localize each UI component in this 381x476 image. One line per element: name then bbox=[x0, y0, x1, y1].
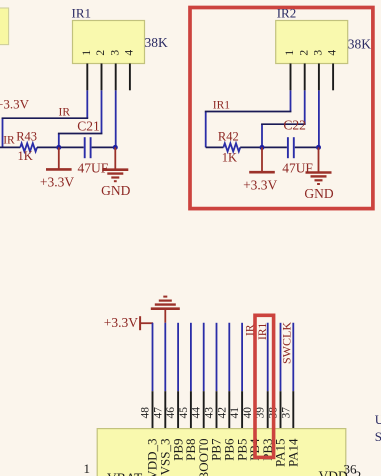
svg-text:C21: C21 bbox=[77, 119, 100, 134]
svg-text:IR1: IR1 bbox=[213, 100, 231, 112]
svg-text:1: 1 bbox=[84, 461, 91, 476]
svg-text:IR: IR bbox=[3, 135, 15, 147]
svg-text:1: 1 bbox=[284, 50, 296, 56]
svg-text:C22: C22 bbox=[283, 118, 306, 133]
svg-text:2: 2 bbox=[95, 50, 107, 56]
svg-text:+3.3V: +3.3V bbox=[243, 177, 277, 192]
svg-text:47UF: 47UF bbox=[282, 161, 313, 176]
svg-text:3: 3 bbox=[313, 50, 325, 56]
svg-text:1: 1 bbox=[81, 50, 93, 56]
svg-text:1K: 1K bbox=[18, 149, 33, 163]
svg-text:+3.3V: +3.3V bbox=[104, 315, 138, 330]
svg-text:PA14: PA14 bbox=[286, 438, 301, 467]
svg-text:R42: R42 bbox=[218, 129, 239, 143]
svg-text:IR1: IR1 bbox=[257, 323, 269, 341]
svg-text:SWCLK: SWCLK bbox=[280, 322, 294, 364]
svg-text:IR: IR bbox=[59, 106, 71, 118]
svg-text:37: 37 bbox=[280, 407, 292, 419]
svg-text:IR1: IR1 bbox=[72, 5, 92, 20]
svg-text:R43: R43 bbox=[16, 129, 37, 143]
svg-text:1K: 1K bbox=[222, 151, 237, 165]
svg-text:IR2: IR2 bbox=[277, 5, 297, 20]
svg-text:44: 44 bbox=[191, 407, 203, 419]
svg-text:36: 36 bbox=[344, 462, 358, 476]
svg-text:+3.3V: +3.3V bbox=[0, 97, 30, 112]
svg-text:41: 41 bbox=[229, 407, 241, 419]
svg-text:3: 3 bbox=[109, 50, 121, 56]
svg-text:45: 45 bbox=[178, 407, 190, 419]
svg-text:43: 43 bbox=[204, 407, 216, 419]
svg-text:40: 40 bbox=[242, 407, 254, 419]
svg-text:38K: 38K bbox=[348, 36, 372, 51]
svg-text:47UF: 47UF bbox=[78, 161, 109, 176]
svg-text:47: 47 bbox=[152, 407, 164, 419]
svg-text:VBAT: VBAT bbox=[107, 471, 143, 476]
svg-text:4: 4 bbox=[124, 50, 136, 56]
svg-text:42: 42 bbox=[216, 407, 228, 419]
svg-text:4: 4 bbox=[327, 50, 339, 56]
svg-text:46: 46 bbox=[165, 407, 177, 419]
svg-text:U: U bbox=[375, 412, 381, 427]
svg-text:GND: GND bbox=[304, 186, 333, 201]
svg-text:+3.3V: +3.3V bbox=[40, 175, 74, 190]
svg-text:GND: GND bbox=[101, 183, 130, 198]
svg-text:38K: 38K bbox=[145, 35, 169, 50]
svg-text:2: 2 bbox=[298, 50, 310, 56]
svg-text:S: S bbox=[375, 429, 381, 444]
svg-text:48: 48 bbox=[140, 407, 152, 419]
